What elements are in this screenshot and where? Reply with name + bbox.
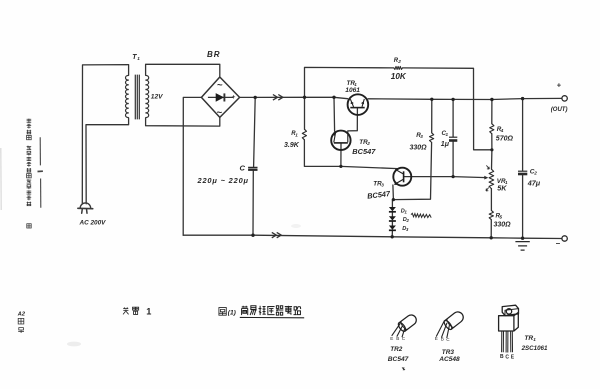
svg-text:3.9K: 3.9K bbox=[284, 142, 300, 149]
svg-text:~: ~ bbox=[217, 80, 223, 91]
svg-text:2: 2 bbox=[397, 59, 401, 64]
svg-text:2: 2 bbox=[533, 171, 537, 176]
svg-text:220μ ~ 220μ: 220μ ~ 220μ bbox=[197, 176, 249, 185]
svg-text:A2: A2 bbox=[17, 311, 26, 317]
svg-text:1μ: 1μ bbox=[441, 141, 450, 148]
svg-text:330Ω: 330Ω bbox=[494, 222, 512, 229]
svg-text:1: 1 bbox=[295, 132, 298, 137]
svg-text:AC 200V: AC 200V bbox=[79, 220, 107, 227]
svg-text:BR: BR bbox=[207, 50, 221, 59]
svg-text:3: 3 bbox=[406, 227, 409, 232]
svg-text:47μ: 47μ bbox=[527, 178, 541, 187]
svg-text:1061: 1061 bbox=[345, 87, 360, 94]
svg-text:(OUT): (OUT) bbox=[551, 107, 568, 113]
svg-text:2: 2 bbox=[406, 218, 410, 223]
svg-text:1: 1 bbox=[446, 132, 449, 137]
svg-text:1: 1 bbox=[137, 56, 140, 61]
svg-text:TR: TR bbox=[524, 335, 533, 342]
svg-text:C: C bbox=[402, 336, 406, 341]
svg-text:2: 2 bbox=[366, 141, 370, 146]
svg-text:3: 3 bbox=[420, 134, 423, 139]
svg-text:TR2: TR2 bbox=[390, 346, 403, 353]
svg-text:BC547: BC547 bbox=[388, 356, 409, 363]
svg-text:5: 5 bbox=[500, 215, 503, 220]
svg-text:330Ω: 330Ω bbox=[410, 145, 428, 152]
svg-text:+: + bbox=[557, 80, 562, 89]
svg-text:AC548: AC548 bbox=[438, 356, 460, 363]
svg-text:B: B bbox=[500, 354, 504, 360]
svg-text:E: E bbox=[390, 336, 393, 341]
svg-text:B: B bbox=[441, 337, 444, 342]
svg-text:+: + bbox=[232, 94, 236, 101]
svg-text:10K: 10K bbox=[391, 72, 407, 81]
svg-text:E: E bbox=[511, 355, 515, 361]
svg-text:C: C bbox=[240, 164, 246, 173]
svg-text:BC547: BC547 bbox=[352, 147, 376, 156]
svg-text:1: 1 bbox=[146, 306, 151, 316]
svg-text:4: 4 bbox=[500, 128, 504, 133]
svg-text:–: – bbox=[556, 239, 561, 248]
svg-text:2SC1061: 2SC1061 bbox=[521, 345, 548, 352]
svg-text:E: E bbox=[435, 336, 438, 341]
svg-text:TR3: TR3 bbox=[442, 349, 455, 356]
svg-text:12V: 12V bbox=[151, 94, 163, 101]
svg-text:1: 1 bbox=[405, 210, 408, 215]
svg-text:1: 1 bbox=[533, 337, 536, 342]
svg-text:B: B bbox=[396, 336, 399, 341]
svg-text:1: 1 bbox=[505, 180, 508, 185]
svg-text:~: ~ bbox=[217, 108, 223, 119]
svg-text:570Ω: 570Ω bbox=[496, 136, 514, 143]
svg-text:1: 1 bbox=[354, 82, 357, 87]
svg-text:C: C bbox=[505, 354, 509, 360]
svg-text:C: C bbox=[446, 337, 450, 342]
svg-text:3: 3 bbox=[381, 183, 384, 188]
svg-text:BC547: BC547 bbox=[367, 189, 392, 201]
svg-text:(1): (1) bbox=[228, 310, 236, 317]
